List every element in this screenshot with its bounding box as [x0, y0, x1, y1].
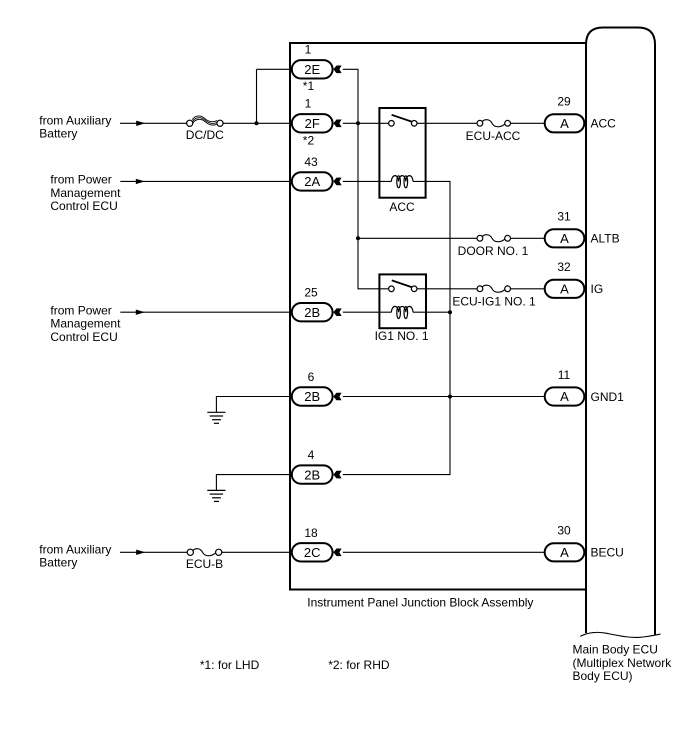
svg-text:DC/DC: DC/DC [186, 128, 224, 142]
arrow into 2B(25) [333, 308, 341, 316]
svg-text:Control ECU: Control ECU [50, 199, 117, 213]
svg-text:A: A [560, 282, 569, 297]
svg-text:ACC: ACC [591, 117, 617, 131]
wire: ground to 2B(4) [216, 475, 290, 491]
arrow right on 2F feed [136, 121, 145, 126]
svg-text:ACC: ACC [389, 200, 415, 214]
svg-text:31: 31 [557, 210, 571, 224]
svg-text:*1: *1 [303, 79, 315, 93]
svg-text:A: A [560, 545, 569, 560]
svg-text:1: 1 [305, 42, 312, 56]
wire: A(11) GND1 to 2B(6) [343, 396, 545, 398]
ground symbol 1 [207, 412, 225, 423]
breaker DC/DC [192, 116, 217, 125]
relay IG1 coil [391, 306, 413, 318]
svg-text:BECU: BECU [591, 546, 624, 560]
wire: A(30) BECU to 2C [343, 551, 545, 553]
wire: 2B(25) arrow to IG1 coil [343, 311, 392, 313]
svg-text:2B: 2B [304, 467, 320, 482]
svg-text:Management: Management [50, 317, 121, 331]
svg-text:A: A [560, 231, 569, 246]
svg-text:from Power: from Power [50, 303, 111, 317]
fuse ECU-IG1 NO. 1 [482, 285, 505, 292]
wire into 2E from left [257, 68, 291, 70]
svg-text:Battery: Battery [39, 556, 77, 570]
svg-text:2B: 2B [304, 305, 320, 320]
svg-text:A: A [560, 116, 569, 131]
relay ACC switch [392, 115, 412, 122]
svg-text:43: 43 [304, 155, 318, 169]
svg-text:*2: for RHD: *2: for RHD [328, 658, 390, 672]
svg-text:DOOR NO. 1: DOOR NO. 1 [458, 244, 529, 258]
svg-text:Control ECU: Control ECU [50, 330, 117, 344]
svg-text:from Auxiliary: from Auxiliary [39, 113, 111, 127]
svg-text:6: 6 [308, 370, 315, 384]
svg-text:ECU-B: ECU-B [186, 557, 223, 571]
relay IG1 switch [392, 280, 412, 287]
svg-text:2B: 2B [304, 389, 320, 404]
wire: from Power Management Control ECU to 2A [120, 180, 290, 182]
wire: from Power Management Control ECU to 2B(25) [120, 311, 290, 313]
svg-text:IG: IG [591, 282, 604, 296]
node dot at IG1 coil row [448, 310, 452, 314]
wire: from Auxiliary Battery to 2F [120, 122, 187, 124]
svg-text:Management: Management [50, 186, 121, 200]
wire: IG1 switch to ECU-IG1 fuse to A(32) [417, 288, 477, 290]
Main Body ECU block [580, 28, 660, 638]
connector 2B pin 25 [292, 303, 333, 321]
Instrument Panel Junction Block Assembly box [290, 43, 586, 590]
svg-text:ALTB: ALTB [591, 232, 620, 246]
connector 2E [292, 60, 333, 78]
svg-text:*1: for LHD: *1: for LHD [200, 658, 260, 672]
svg-text:from Power: from Power [50, 173, 111, 187]
fuse ECU-B [193, 549, 216, 556]
svg-text:2A: 2A [304, 174, 320, 189]
wire: ground to 2B(6) [216, 397, 290, 413]
svg-text:ECU-ACC: ECU-ACC [466, 129, 521, 143]
ground symbol 2 [207, 490, 225, 501]
connector A pin 11 GND1 [545, 387, 585, 405]
wire: DOOR NO.1 row to A(31) [358, 237, 477, 239]
connector 2F [292, 114, 333, 132]
connector 2A [292, 172, 333, 190]
wire: 2E right to vertical branch [343, 69, 389, 288]
arrow into 2C [333, 549, 341, 557]
connector A pin 32 IG [545, 280, 585, 298]
svg-text:from Auxiliary: from Auxiliary [39, 542, 111, 556]
svg-text:2E: 2E [304, 62, 320, 77]
svg-text:2F: 2F [305, 116, 320, 131]
svg-text:25: 25 [304, 286, 318, 300]
connector A pin 29 ACC [545, 114, 585, 132]
arrow into 2E [333, 66, 341, 74]
node dot at DOOR NO.1 branch [356, 236, 360, 240]
arrow into 2B(4) [333, 471, 341, 479]
connector 2B pin 4 [292, 465, 333, 483]
svg-text:Body ECU): Body ECU) [573, 669, 633, 683]
svg-text:(Multiplex Network: (Multiplex Network [573, 656, 673, 670]
svg-text:*2: *2 [303, 134, 315, 148]
node dot at GND1 row [448, 395, 452, 399]
svg-text:IG1 NO. 1: IG1 NO. 1 [375, 329, 429, 343]
fuse ECU-ACC [482, 120, 505, 127]
svg-text:GND1: GND1 [591, 390, 625, 404]
connector A pin 30 BECU [545, 543, 585, 561]
svg-text:ECU-IG1 NO. 1: ECU-IG1 NO. 1 [452, 295, 536, 309]
wire: from Auxiliary Battery to 2C [120, 551, 187, 553]
relay ACC box [379, 108, 425, 198]
node dot at 2F wire [356, 121, 360, 125]
wire: ACC switch to ECU-ACC fuse to A(29) [417, 122, 477, 124]
svg-text:30: 30 [557, 524, 571, 538]
arrow into 2A [333, 178, 341, 186]
wire: ACC coil right, down to 2B(4) [343, 181, 450, 474]
connector A pin 31 ALTB [545, 229, 585, 247]
arrow into 2B(6) [333, 393, 341, 401]
svg-text:Battery: Battery [39, 127, 77, 141]
relay ACC coil [391, 176, 413, 188]
connector 2B pin 6 [292, 387, 333, 405]
svg-text:4: 4 [308, 448, 315, 462]
svg-text:Instrument Panel Junction Bloc: Instrument Panel Junction Block Assembly [307, 595, 533, 609]
svg-text:32: 32 [557, 260, 571, 274]
wire: 2A to ACC coil [343, 180, 392, 182]
svg-text:29: 29 [557, 95, 571, 109]
wire: 2F right into ACC relay switch [343, 122, 389, 124]
svg-text:A: A [560, 389, 569, 404]
svg-text:18: 18 [304, 526, 318, 540]
node: junction of DC/DC line and 2E branch [256, 69, 258, 123]
arrow into 2F [333, 120, 341, 128]
connector 2C [292, 543, 333, 561]
svg-text:11: 11 [558, 368, 571, 382]
fuse DOOR NO. 1 [482, 235, 505, 242]
svg-text:2C: 2C [304, 545, 321, 560]
svg-text:Main Body ECU: Main Body ECU [573, 643, 658, 657]
svg-text:1: 1 [305, 97, 312, 111]
relay IG1 NO.1 box [379, 274, 426, 328]
